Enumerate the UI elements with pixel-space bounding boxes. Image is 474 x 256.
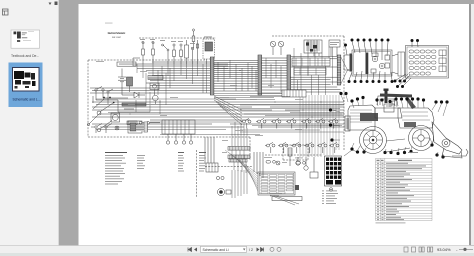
- fuse box grid: [409, 50, 446, 75]
- wire band lower long: [92, 102, 344, 127]
- aux lamp: [276, 161, 287, 165]
- toggle switch row lower: [265, 142, 339, 153]
- engine terminal E1: [166, 134, 169, 144]
- wire color legend: [105, 152, 127, 184]
- panel callouts bottom: [348, 71, 394, 83]
- panel gauge 2: [379, 63, 385, 69]
- svg-text:Schematic and Li: Schematic and Li: [203, 248, 229, 252]
- machine hood: [345, 105, 378, 131]
- mid band verticals: [218, 58, 281, 92]
- legend column 2: [137, 155, 145, 169]
- extra mid lines: [96, 97, 344, 135]
- ground terminal G1: [97, 97, 112, 132]
- machine exhaust: [384, 89, 389, 104]
- connector J1: [210, 57, 214, 95]
- thumbnail 2 caption: [13, 97, 41, 101]
- panel callouts left: [344, 44, 347, 56]
- switch S3: [107, 89, 113, 98]
- harness dashed line right: [265, 154, 322, 156]
- panel gauge 1: [372, 56, 378, 62]
- hour meter HM: [150, 83, 159, 95]
- lower box switch S5: [105, 124, 112, 134]
- diode D1: [129, 92, 145, 98]
- thumbnail 1 caption: [11, 54, 39, 58]
- aux connector P2: [206, 163, 218, 172]
- wire band cab feed: [90, 62, 210, 93]
- panel connector: [344, 54, 352, 72]
- machine callouts left: [329, 92, 348, 142]
- wire band cab: [291, 57, 341, 93]
- solenoid SOL2: [304, 157, 308, 170]
- rear bundle verticals: [232, 170, 247, 198]
- drop wires to plug: [205, 137, 214, 163]
- panel switch bar: [366, 53, 369, 75]
- module top components: [264, 157, 305, 164]
- status bar nav buttons: [188, 248, 197, 252]
- harness boundary dashed box: [88, 36, 344, 160]
- status bar view buttons: [270, 247, 281, 251]
- thumbnail 1 page: [11, 30, 40, 48]
- key switch S2: [95, 87, 104, 97]
- junction module feed: [214, 94, 282, 100]
- sidebar panel icon: [3, 9, 9, 15]
- harness dashed line low: [197, 150, 253, 198]
- fuse F2: [152, 41, 155, 64]
- fuse F1: [142, 41, 145, 64]
- machine skid: [344, 149, 468, 156]
- junction module: [282, 90, 306, 97]
- engine terminal E3: [182, 134, 185, 144]
- fuel pump motor: [217, 188, 231, 195]
- svg-text:Electrical Schematic: Electrical Schematic: [108, 31, 126, 35]
- table grid: [376, 159, 433, 221]
- svg-text:93.04%: 93.04%: [437, 247, 451, 252]
- connector J3: [287, 55, 291, 95]
- machine front wheel: [360, 127, 387, 154]
- machine callouts top: [350, 96, 425, 108]
- strip drop wires: [232, 120, 247, 173]
- fuse box body: [406, 46, 449, 79]
- harness bus vertical: [300, 95, 339, 157]
- machine blade arm: [432, 122, 462, 158]
- table header: [377, 160, 413, 161]
- starter M1: [97, 102, 115, 115]
- machine cab frame: [375, 96, 402, 118]
- wire fan diagonal: [214, 96, 242, 125]
- fuse F4: [180, 44, 183, 64]
- svg-text:Textbook and De...: Textbook and De...: [11, 54, 39, 58]
- gauge GA1: [270, 41, 276, 55]
- wire band gauge: [262, 58, 287, 93]
- machine rear body: [398, 108, 434, 128]
- table footnote: [376, 222, 406, 225]
- module lower box: [270, 195, 302, 205]
- module fan wires: [225, 150, 258, 192]
- legend column 4: [199, 152, 206, 171]
- machine callouts bottom: [350, 138, 444, 159]
- panel bracket: [392, 52, 405, 76]
- engine harness plug: [162, 120, 195, 134]
- controller module: [258, 172, 299, 195]
- sidebar header buttons: [49, 2, 58, 6]
- harness label bar: [122, 103, 146, 109]
- solenoid SOL1: [296, 157, 300, 165]
- connector strip CS3: [229, 159, 247, 162]
- thumbnail 2 selection: [9, 63, 43, 108]
- junction dots: [130, 63, 331, 125]
- connector face circles: [216, 176, 224, 179]
- machine boom arm: [380, 94, 416, 110]
- supply bus wires: [133, 58, 228, 69]
- diode pack DP1: [325, 156, 342, 186]
- toggle switch row upper: [241, 118, 338, 128]
- gauge cluster boxes: [292, 58, 330, 75]
- svg-text:/ 2: / 2: [249, 248, 253, 252]
- connector strip CS1: [228, 147, 250, 151]
- cab mesh verticals: [294, 47, 333, 95]
- sender unit: [310, 157, 318, 178]
- lower box switch S4: [91, 124, 102, 134]
- switch S1: [162, 44, 170, 64]
- cab connector bar: [337, 55, 349, 85]
- fuse box callouts: [411, 39, 420, 47]
- fusible link FL1: [148, 76, 163, 80]
- diode pack notes: [322, 191, 338, 204]
- flasher module: [329, 40, 340, 56]
- inline connector pair: [127, 121, 160, 125]
- wire band mid: [214, 61, 258, 92]
- legend column 3: [178, 152, 184, 171]
- machine label: [408, 151, 418, 154]
- fuse box callouts bottom: [394, 74, 412, 88]
- breaker CB1: [196, 40, 198, 64]
- gauge sender: [153, 95, 159, 104]
- machine callouts right: [432, 100, 449, 116]
- fuse labels: [140, 37, 212, 44]
- relay K1: [185, 40, 189, 64]
- left grid verticals: [136, 68, 170, 114]
- diode pack terminal: [329, 188, 333, 192]
- feed band verticals: [137, 64, 207, 93]
- svg-text:S/N 51447: S/N 51447: [112, 37, 122, 39]
- schematic title: [105, 23, 126, 39]
- relay K2 dashed enclosure: [203, 39, 215, 64]
- relay K3: [127, 77, 133, 92]
- lamp cluster: [304, 40, 322, 56]
- svg-text:Schematic and L...: Schematic and L...: [13, 97, 41, 101]
- instrument panel body: [352, 50, 392, 76]
- fuse F5: [191, 47, 193, 64]
- machine seat: [386, 101, 395, 106]
- fuse F3: [173, 44, 176, 64]
- panel keypad: [371, 53, 390, 73]
- note label: [117, 62, 136, 66]
- battery B1: [118, 72, 126, 86]
- rear harness connector: [288, 148, 292, 166]
- status bar zoom: [437, 247, 473, 252]
- lower box lamp L1: [115, 126, 119, 130]
- horn H1: [111, 113, 120, 122]
- table row text: [377, 163, 426, 220]
- main fuse F0: [192, 29, 195, 48]
- status bar layout buttons: [404, 247, 433, 252]
- gauge GA2: [278, 41, 284, 55]
- lower box connector P1: [144, 122, 148, 132]
- lower box relay K4: [128, 121, 142, 133]
- parts table: [376, 159, 433, 224]
- status bar next buttons: [257, 248, 264, 252]
- connector strip CS2: [228, 155, 250, 159]
- label smudges: [96, 61, 303, 196]
- terminal arrows left: [87, 99, 104, 126]
- thumbnail 2 page: [13, 68, 40, 92]
- machine rear wheel: [409, 126, 434, 151]
- fan drop wires: [254, 152, 263, 178]
- machine axle line: [386, 139, 410, 152]
- connector J2: [258, 55, 262, 95]
- panel callouts top: [351, 39, 390, 61]
- engine terminal E2: [174, 134, 177, 144]
- wire segment left feed: [93, 69, 150, 113]
- status bar page box: [201, 246, 254, 252]
- engine terminal E4: [189, 134, 192, 144]
